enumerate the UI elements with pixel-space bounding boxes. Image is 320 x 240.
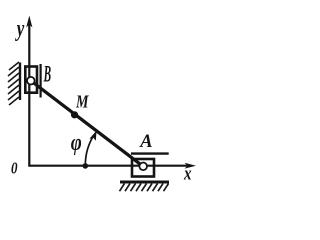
ground line under A <box>120 181 169 184</box>
point M dot <box>71 111 78 118</box>
top guide rail at A <box>131 152 169 154</box>
pivot circle A <box>139 163 147 171</box>
slider block A <box>132 159 154 177</box>
svg-text:M: M <box>75 92 89 112</box>
svg-text:0: 0 <box>11 158 18 177</box>
angle phi arc <box>85 135 94 166</box>
y-axis <box>28 22 30 167</box>
svg-text:φ: φ <box>71 130 82 156</box>
svg-text:y: y <box>15 16 25 42</box>
wall hatching at B <box>8 62 19 105</box>
svg-text:B: B <box>43 62 51 88</box>
wall edge line at B <box>19 63 21 101</box>
svg-text:x: x <box>183 164 192 185</box>
pivot circle B <box>27 77 35 85</box>
angle phi start dot <box>83 163 89 169</box>
slider block B <box>25 67 37 93</box>
right guide rail at B <box>39 64 41 98</box>
svg-text:A: A <box>139 132 152 152</box>
x-axis arrowhead <box>185 163 197 169</box>
x-axis <box>28 165 190 167</box>
angle phi arc arrowhead <box>89 131 96 141</box>
ground hatching under A <box>120 184 169 192</box>
rod AB <box>31 81 144 167</box>
y-axis arrowhead <box>26 16 32 28</box>
